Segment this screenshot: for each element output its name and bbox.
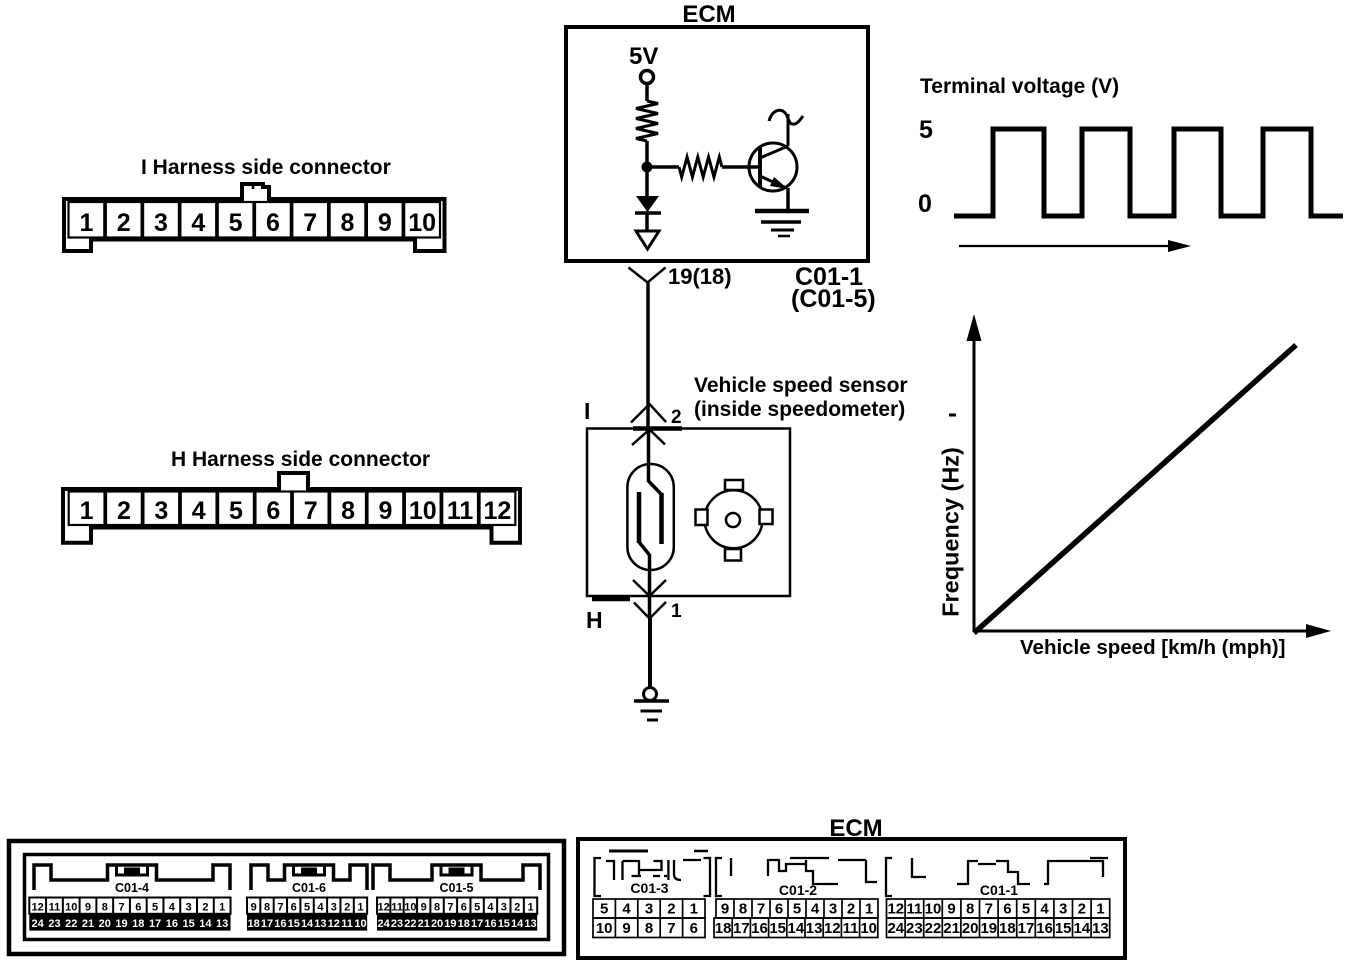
svg-text:16: 16: [166, 918, 178, 930]
svg-text:6: 6: [690, 920, 698, 937]
time arrow under waveform: [959, 240, 1191, 252]
svg-text:11: 11: [341, 918, 353, 930]
svg-text:Terminal voltage (V): Terminal voltage (V): [920, 75, 1119, 98]
svg-text:17: 17: [733, 920, 750, 937]
C01-4 pins 12-1 (top row): [29, 898, 230, 914]
vehicle speed sensor box: [587, 429, 790, 597]
svg-text:5: 5: [600, 901, 608, 918]
svg-text:15: 15: [182, 918, 194, 930]
svg-text:21: 21: [943, 920, 960, 937]
connector C01-2 housing: [716, 858, 877, 896]
svg-text:14: 14: [511, 918, 524, 930]
svg-text:2: 2: [117, 497, 131, 525]
C01-4 pins 24-13 (bottom row): [29, 914, 230, 931]
svg-text:15: 15: [498, 918, 510, 930]
svg-text:10: 10: [860, 920, 877, 937]
svg-text:5: 5: [474, 901, 480, 913]
svg-text:(C01-5): (C01-5): [791, 285, 876, 313]
svg-text:16: 16: [1036, 920, 1053, 937]
svg-text:10: 10: [404, 901, 416, 913]
svg-text:10: 10: [65, 901, 77, 913]
svg-text:0: 0: [918, 190, 932, 218]
svg-text:17: 17: [261, 918, 273, 930]
svg-text:Vehicle speed [km/h (mph)]: Vehicle speed [km/h (mph)]: [1020, 636, 1285, 659]
svg-text:13: 13: [1092, 920, 1109, 937]
svg-text:C01-1: C01-1: [980, 882, 1018, 898]
svg-text:7: 7: [277, 901, 283, 913]
svg-text:11: 11: [843, 920, 859, 937]
svg-text:14: 14: [199, 918, 212, 930]
svg-text:3: 3: [154, 209, 168, 237]
connector C01-5 housing: [373, 865, 540, 890]
svg-text:H: H: [586, 607, 603, 633]
svg-text:3: 3: [154, 497, 168, 525]
pull-up resistor R1: [636, 101, 658, 141]
svg-text:13: 13: [314, 918, 326, 930]
svg-text:9: 9: [378, 497, 392, 525]
svg-text:18: 18: [999, 920, 1016, 937]
svg-text:8: 8: [341, 209, 355, 237]
svg-text:9: 9: [421, 901, 427, 913]
svg-text:1: 1: [671, 601, 682, 622]
H connector pin 6: [255, 492, 291, 526]
svg-text:4: 4: [191, 209, 205, 237]
svg-text:19: 19: [115, 918, 127, 930]
I connector pin 9: [367, 202, 403, 238]
svg-text:Frequency (Hz): Frequency (Hz): [938, 447, 964, 617]
svg-text:C01-4: C01-4: [115, 881, 149, 895]
svg-text:1: 1: [865, 901, 873, 918]
C01-2 pins 18-10 (bottom row): [714, 918, 878, 938]
ECM box U1: [566, 27, 868, 261]
C01-3 pins 5-1 (top row): [593, 899, 705, 918]
svg-text:9: 9: [85, 901, 91, 913]
reed switch contacts: [639, 481, 662, 555]
wire sensor pin 1 to ground: [648, 618, 652, 688]
svg-text:8: 8: [102, 901, 108, 913]
svg-text:13: 13: [806, 920, 823, 937]
connector marker pin 2 (lower chevron): [632, 430, 665, 446]
svg-text:6: 6: [291, 901, 297, 913]
svg-text:5: 5: [152, 901, 158, 913]
C01-6 pins 9-1 (top row): [247, 898, 367, 914]
svg-text:23: 23: [391, 918, 403, 930]
thick dash under box bottom left: [592, 597, 630, 602]
svg-text:2: 2: [344, 901, 350, 913]
svg-text:2: 2: [671, 407, 682, 428]
svg-text:12: 12: [328, 918, 340, 930]
svg-text:C01-2: C01-2: [779, 882, 817, 898]
svg-text:9: 9: [378, 209, 392, 237]
svg-text:6: 6: [266, 209, 280, 237]
svg-text:6: 6: [1003, 901, 1011, 918]
svg-text:4: 4: [487, 901, 494, 913]
svg-text:1: 1: [690, 901, 698, 918]
svg-text:C01-3: C01-3: [630, 880, 668, 896]
svg-text:9: 9: [251, 901, 257, 913]
ECM connector block frame: [578, 839, 1125, 958]
svg-text:10: 10: [354, 918, 366, 930]
connector C01-4 housing: [34, 865, 230, 890]
frequency graph X axis: [974, 624, 1331, 638]
svg-text:2: 2: [847, 901, 855, 918]
svg-text:10: 10: [408, 209, 436, 237]
rotor tab south: [725, 549, 741, 561]
C01-5 pins 24-13 (bottom row): [377, 914, 537, 931]
svg-text:14: 14: [1073, 920, 1090, 937]
connector marker pin 1 (upper chevron): [633, 580, 666, 596]
C01-1 pins 24-13 (bottom row): [887, 918, 1110, 938]
wire base resistor to transistor base: [722, 165, 758, 169]
H connector pin 8: [330, 492, 366, 526]
H connector pin 7: [293, 492, 329, 526]
wire reed switch to sensor pin 1: [648, 554, 652, 618]
H connector pin 2: [106, 492, 142, 526]
H harness side connector body: [63, 473, 520, 543]
C01-3 pins 10-6 (bottom row): [593, 918, 705, 938]
svg-text:19(18): 19(18): [668, 264, 732, 289]
svg-text:5: 5: [229, 209, 243, 237]
connector marker pin 1 (lower chevron): [634, 602, 666, 619]
svg-text:14: 14: [788, 920, 805, 937]
svg-text:10: 10: [925, 901, 942, 918]
svg-text:10: 10: [596, 920, 613, 937]
svg-text:17: 17: [471, 918, 483, 930]
svg-text:7: 7: [303, 209, 317, 237]
wire resistor to node A: [645, 141, 649, 196]
I connector pin 7: [292, 202, 328, 238]
svg-text:1: 1: [527, 901, 533, 913]
svg-text:6: 6: [135, 901, 141, 913]
diode D1: [635, 196, 661, 213]
svg-text:16: 16: [484, 918, 496, 930]
svg-text:I: I: [584, 398, 590, 424]
svg-text:3: 3: [501, 901, 507, 913]
svg-text:7: 7: [757, 901, 765, 918]
harness side connector block (inner frame): [25, 855, 549, 940]
H connector pin 4: [181, 492, 217, 526]
svg-text:20: 20: [962, 920, 979, 937]
svg-text:(inside speedometer): (inside speedometer): [694, 398, 905, 421]
svg-text:11: 11: [391, 901, 403, 913]
svg-text:24: 24: [32, 918, 45, 930]
svg-text:23: 23: [48, 918, 60, 930]
I connector pin 8: [330, 202, 366, 238]
svg-text:2: 2: [667, 901, 675, 918]
wire sensor pin 2 into reed switch: [647, 429, 651, 482]
chassis ground: [634, 701, 669, 720]
svg-text:4: 4: [317, 901, 324, 913]
I connector pin 4: [180, 202, 216, 238]
H connector pin 9: [368, 492, 404, 526]
svg-text:19: 19: [444, 918, 456, 930]
connector C01-3 housing: [595, 851, 711, 896]
svg-text:22: 22: [65, 918, 77, 930]
svg-text:9: 9: [721, 901, 729, 918]
I connector pin 3: [143, 202, 179, 238]
svg-text:21: 21: [82, 918, 94, 930]
square wave of terminal voltage: [954, 129, 1343, 216]
svg-text:21: 21: [418, 918, 430, 930]
svg-text:9: 9: [947, 901, 955, 918]
I connector pin 5: [218, 202, 254, 238]
wire emitter to ground: [786, 188, 790, 210]
I connector pin 6: [255, 202, 291, 238]
base resistor R2: [679, 157, 722, 177]
H connector pin 5: [218, 492, 254, 526]
svg-text:7: 7: [667, 920, 675, 937]
C01-6 pins 18-10 (bottom row): [247, 914, 367, 931]
svg-text:12: 12: [484, 497, 512, 525]
svg-text:4: 4: [622, 901, 631, 918]
collector squiggle (goes elsewhere): [769, 110, 803, 124]
svg-text:18: 18: [132, 918, 144, 930]
reed switch (stadium outline): [627, 464, 673, 570]
svg-text:18: 18: [715, 920, 732, 937]
I connector pin 1: [69, 202, 105, 238]
svg-text:C01-5: C01-5: [439, 881, 473, 895]
connector tab notch: [252, 185, 255, 189]
svg-text:12: 12: [887, 901, 904, 918]
svg-text:15: 15: [1055, 920, 1072, 937]
svg-text:16: 16: [751, 920, 768, 937]
svg-text:2: 2: [117, 209, 131, 237]
svg-text:24: 24: [378, 918, 391, 930]
svg-text:3: 3: [1059, 901, 1067, 918]
svg-text:14: 14: [301, 918, 314, 930]
small tick on Y axis: [949, 414, 956, 417]
C01-2 pins 9-1 (top row): [716, 899, 878, 918]
svg-text:7: 7: [304, 497, 318, 525]
svg-text:12: 12: [824, 920, 841, 937]
rotor magnet (circle): [705, 490, 763, 548]
svg-text:4: 4: [1040, 901, 1049, 918]
svg-text:9: 9: [622, 920, 630, 937]
I harness side connector body: [64, 184, 445, 251]
svg-text:12: 12: [378, 901, 390, 913]
svg-text:20: 20: [431, 918, 443, 930]
H connector pin 11: [442, 492, 478, 526]
output arrow (open triangle): [636, 231, 659, 249]
svg-text:11: 11: [447, 497, 474, 525]
svg-text:23: 23: [906, 920, 923, 937]
svg-text:13: 13: [216, 918, 228, 930]
svg-text:19: 19: [980, 920, 997, 937]
svg-text:17: 17: [1018, 920, 1035, 937]
I connector pin 10: [404, 202, 440, 238]
svg-text:10: 10: [409, 497, 437, 525]
I connector pin 2: [106, 202, 142, 238]
svg-text:11: 11: [49, 901, 61, 913]
svg-text:16: 16: [274, 918, 286, 930]
svg-text:4: 4: [192, 497, 206, 525]
svg-text:Vehicle speed sensor: Vehicle speed sensor: [694, 374, 908, 397]
svg-text:20: 20: [99, 918, 111, 930]
connector C01-1 housing: [886, 858, 1108, 896]
svg-text:5: 5: [919, 116, 933, 144]
svg-text:24: 24: [887, 920, 904, 937]
svg-text:22: 22: [404, 918, 416, 930]
svg-text:12: 12: [32, 901, 44, 913]
svg-text:6: 6: [461, 901, 467, 913]
svg-text:6: 6: [775, 901, 783, 918]
svg-text:4: 4: [811, 901, 820, 918]
H connector pin 12: [480, 492, 516, 526]
transistor Q1 (NPN): [749, 114, 797, 191]
ground terminal circle: [644, 688, 657, 701]
node A (junction dot): [642, 162, 653, 173]
svg-text:15: 15: [769, 920, 786, 937]
svg-text:2: 2: [514, 901, 520, 913]
H connector pin 1: [69, 492, 105, 526]
wire ECM pin 19 down to sensor pin 2: [646, 282, 650, 429]
svg-text:2: 2: [202, 901, 208, 913]
svg-text:5: 5: [229, 497, 243, 525]
wire node to base resistor: [647, 165, 679, 169]
connector marker pin 2 (upper chevron): [631, 404, 666, 423]
svg-text:3: 3: [829, 901, 837, 918]
wire diode to output arrow: [645, 214, 649, 231]
svg-text:ECM: ECM: [682, 1, 735, 28]
svg-text:22: 22: [925, 920, 942, 937]
svg-text:8: 8: [341, 497, 355, 525]
svg-text:3: 3: [645, 901, 653, 918]
svg-text:15: 15: [288, 918, 300, 930]
svg-text:7: 7: [447, 901, 453, 913]
svg-text:5: 5: [304, 901, 310, 913]
5V supply terminal: [641, 71, 654, 84]
svg-text:6: 6: [266, 497, 280, 525]
svg-text:13: 13: [524, 918, 536, 930]
svg-text:18: 18: [248, 918, 260, 930]
H connector pin 3: [143, 492, 179, 526]
connector C01-6 housing: [251, 865, 367, 890]
H connector pin 10: [405, 492, 441, 526]
rotor tab west: [696, 510, 708, 526]
svg-text:H Harness side connector: H Harness side connector: [171, 448, 430, 471]
svg-text:1: 1: [1096, 901, 1104, 918]
rotor center hub: [726, 513, 740, 527]
svg-text:3: 3: [331, 901, 337, 913]
svg-text:C01-6: C01-6: [292, 881, 326, 895]
svg-text:8: 8: [739, 901, 747, 918]
svg-text:7: 7: [985, 901, 993, 918]
svg-text:8: 8: [966, 901, 974, 918]
C01-5 pins 12-1 (top row): [377, 898, 537, 914]
svg-text:1: 1: [79, 209, 93, 237]
rotor tab east: [760, 510, 773, 525]
svg-text:1: 1: [357, 901, 363, 913]
svg-text:11: 11: [906, 901, 922, 918]
connector marker at pin 19: [629, 268, 666, 283]
svg-text:1: 1: [80, 497, 94, 525]
thick segment on box top edge: [633, 426, 682, 431]
wire 5V terminal to resistor: [645, 84, 649, 101]
svg-text:5V: 5V: [629, 43, 658, 70]
ground (ECM internal): [755, 211, 809, 236]
harness side connector block (outer frame): [9, 841, 564, 954]
svg-text:7: 7: [118, 901, 124, 913]
svg-text:8: 8: [645, 920, 653, 937]
svg-text:8: 8: [264, 901, 270, 913]
svg-text:18: 18: [458, 918, 470, 930]
frequency vs speed line: [974, 345, 1296, 633]
svg-text:3: 3: [186, 901, 192, 913]
svg-text:8: 8: [434, 901, 440, 913]
rotor tab north: [725, 480, 743, 490]
svg-text:17: 17: [149, 918, 161, 930]
C01-1 pins 12-1 (top row): [887, 899, 1110, 918]
svg-text:5: 5: [793, 901, 801, 918]
svg-text:4: 4: [169, 901, 176, 913]
svg-text:1: 1: [219, 901, 225, 913]
svg-text:2: 2: [1078, 901, 1086, 918]
frequency graph Y axis: [967, 314, 982, 632]
svg-text:5: 5: [1022, 901, 1030, 918]
svg-text:I Harness side connector: I Harness side connector: [141, 156, 391, 179]
